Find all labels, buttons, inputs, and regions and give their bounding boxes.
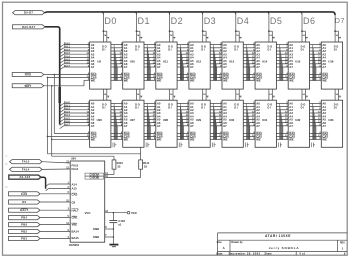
svg-text:U27: U27	[130, 118, 136, 122]
svg-text:WE: WE	[322, 78, 327, 82]
svg-text:U13: U13	[229, 60, 235, 64]
svg-text:PB2: PB2	[21, 230, 27, 234]
svg-text:GND: GND	[93, 235, 99, 239]
svg-text:CASENB: CASENB	[89, 177, 99, 180]
svg-text:D I: D I	[301, 106, 305, 110]
svg-text:CRE: CRE	[72, 216, 78, 220]
svg-text:D I: D I	[135, 48, 139, 52]
svg-text:RA0-RA7: RA0-RA7	[22, 25, 36, 29]
svg-text:WE: WE	[190, 78, 195, 82]
svg-text:D I: D I	[334, 48, 338, 52]
svg-text:WE: WE	[289, 137, 294, 141]
svg-text:A7: A7	[322, 65, 326, 69]
svg-text:Drawn by: Drawn by	[231, 241, 243, 244]
svg-text:September 29, 2003: September 29, 2003	[229, 252, 261, 256]
svg-text:A7: A7	[223, 65, 227, 69]
svg-text:WE: WE	[190, 137, 195, 141]
svg-text:CAS: CAS	[72, 193, 78, 197]
svg-text:D I: D I	[135, 106, 139, 110]
svg-text:WE: WE	[124, 137, 129, 141]
svg-text:FA14: FA14	[22, 167, 30, 171]
svg-text:WE: WE	[124, 78, 129, 82]
svg-text:D I: D I	[234, 106, 238, 110]
svg-text:A7: A7	[190, 124, 194, 128]
svg-text:D I: D I	[234, 48, 238, 52]
svg-text:A7: A7	[223, 124, 227, 128]
svg-text:RA7: RA7	[64, 123, 71, 127]
svg-text:D6: D6	[303, 16, 316, 26]
svg-text:REV: REV	[340, 241, 345, 244]
svg-text:BA14: BA14	[72, 229, 80, 233]
svg-text:VBE: VBE	[72, 223, 78, 227]
svg-text:D I: D I	[168, 106, 172, 110]
svg-text:A7: A7	[289, 124, 293, 128]
svg-text:A7: A7	[256, 65, 260, 69]
svg-text:Jerry SOBOLA: Jerry SOBOLA	[269, 246, 300, 250]
svg-text:U11: U11	[163, 60, 168, 64]
svg-text:CO25953: CO25953	[69, 244, 80, 247]
svg-text:U9: U9	[97, 60, 101, 64]
svg-text:GND: GND	[93, 227, 99, 231]
svg-text:A7: A7	[157, 65, 161, 69]
svg-text:A14: A14	[72, 182, 78, 186]
svg-text:D I: D I	[102, 106, 106, 110]
svg-text:WE: WE	[289, 78, 294, 82]
svg-text:A15: A15	[72, 187, 78, 191]
svg-text:D0-D7: D0-D7	[24, 11, 33, 15]
svg-text:FA14: FA14	[72, 167, 79, 171]
svg-text:HALT: HALT	[72, 208, 80, 212]
svg-text:WE: WE	[223, 78, 228, 82]
svg-text:WE: WE	[91, 137, 96, 141]
svg-text:WE: WE	[157, 78, 162, 82]
svg-text:Size: Size	[217, 241, 223, 244]
svg-text:PB4: PB4	[21, 216, 27, 220]
svg-text:WE: WE	[91, 78, 96, 82]
svg-text:D I: D I	[268, 48, 272, 52]
svg-text:D4: D4	[237, 16, 250, 26]
svg-text:A7: A7	[91, 65, 95, 69]
svg-text:D I: D I	[201, 48, 205, 52]
svg-text:WE: WE	[223, 137, 228, 141]
svg-text:D7: D7	[335, 16, 345, 25]
svg-text:U32: U32	[295, 118, 301, 122]
svg-text:U34: U34	[71, 157, 77, 161]
svg-text:ATARI 130XE: ATARI 130XE	[265, 234, 291, 238]
svg-text:RA7: RA7	[64, 64, 71, 68]
svg-text:D3: D3	[204, 16, 217, 26]
svg-text:VCC: VCC	[85, 211, 91, 215]
svg-text:VCC: VCC	[131, 211, 138, 215]
svg-text:A7: A7	[190, 65, 194, 69]
svg-text:U15: U15	[295, 60, 301, 64]
svg-text:u: u	[5, 161, 7, 166]
svg-text:WE: WE	[322, 137, 327, 141]
svg-text:O2: O2	[22, 200, 26, 204]
svg-text:U26: U26	[97, 118, 103, 122]
svg-text:A7: A7	[91, 124, 95, 128]
svg-text:U31: U31	[262, 118, 268, 122]
svg-text:U28: U28	[163, 118, 169, 122]
svg-text:WE: WE	[256, 137, 261, 141]
svg-text:Sheet: Sheet	[264, 252, 271, 256]
svg-text:D5: D5	[270, 16, 283, 26]
svg-text:4 of: 4 of	[299, 252, 305, 256]
svg-text:FA15: FA15	[22, 160, 30, 164]
svg-text:A0-A15: A0-A15	[19, 175, 30, 179]
svg-text:BA15: BA15	[72, 236, 80, 240]
svg-text:U14: U14	[262, 60, 268, 64]
svg-text:PB3: PB3	[21, 237, 27, 241]
svg-text:D I: D I	[268, 106, 272, 110]
svg-text:A7: A7	[256, 124, 260, 128]
svg-text:U29: U29	[196, 118, 202, 122]
svg-text:U12: U12	[196, 60, 202, 64]
svg-text:A7: A7	[322, 124, 326, 128]
svg-text:D0: D0	[104, 16, 117, 26]
svg-text:33: 33	[117, 164, 120, 168]
svg-text:D2: D2	[171, 16, 184, 26]
svg-text:33: 33	[144, 164, 147, 168]
svg-text:A7: A7	[124, 124, 128, 128]
svg-text:u1: u1	[118, 222, 122, 226]
svg-text:WE: WE	[256, 78, 261, 82]
svg-text:D I: D I	[102, 48, 106, 52]
svg-text:PB6: PB6	[21, 223, 27, 227]
svg-text:D I: D I	[301, 48, 305, 52]
svg-text:D1: D1	[138, 16, 151, 26]
svg-text:U16: U16	[328, 60, 334, 64]
svg-text:D I: D I	[334, 106, 338, 110]
svg-text:D I: D I	[201, 106, 205, 110]
svg-text:u: u	[5, 184, 7, 189]
svg-text:A7: A7	[157, 124, 161, 128]
svg-text:U10: U10	[130, 60, 136, 64]
svg-text:CASENA: CASENA	[89, 174, 99, 177]
svg-text:U33: U33	[328, 118, 334, 122]
svg-text:O2: O2	[72, 200, 76, 204]
svg-text:A7: A7	[289, 65, 293, 69]
svg-text:WE: WE	[157, 137, 162, 141]
svg-text:Date:: Date:	[216, 252, 223, 256]
svg-text:U30: U30	[229, 118, 235, 122]
svg-text:D I: D I	[168, 48, 172, 52]
svg-text:A7: A7	[124, 65, 128, 69]
